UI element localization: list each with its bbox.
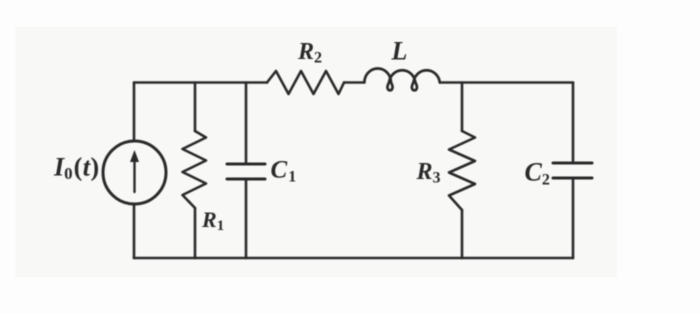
wire R1 branch lower <box>194 208 197 258</box>
wire R1 branch upper <box>194 83 197 132</box>
wire R3 branch upper <box>461 83 464 132</box>
capacitor C2 <box>553 163 592 178</box>
wire top rail middle segment <box>344 81 363 84</box>
wire right vertical upper <box>572 83 575 163</box>
wire top rail left segment <box>134 81 267 84</box>
wire right vertical lower <box>572 178 575 258</box>
inductor L <box>364 69 439 91</box>
resistor R2 <box>267 71 344 94</box>
current source arrow <box>130 150 139 192</box>
resistor R3 <box>449 131 475 210</box>
wire left vertical lower <box>133 204 136 258</box>
svg-text:L: L <box>391 37 408 66</box>
wire R3 branch lower <box>461 210 464 258</box>
wire left vertical upper <box>133 83 136 142</box>
wire top rail right segment <box>440 81 573 84</box>
current source U1 circle <box>103 141 166 204</box>
capacitor C1 <box>227 164 265 179</box>
wire C1 branch lower <box>245 180 248 258</box>
wire bottom rail <box>134 257 573 260</box>
svg-text:I0(t): I0(t) <box>53 153 99 184</box>
wire C1 branch upper <box>245 83 248 164</box>
resistor R1 <box>183 131 207 208</box>
